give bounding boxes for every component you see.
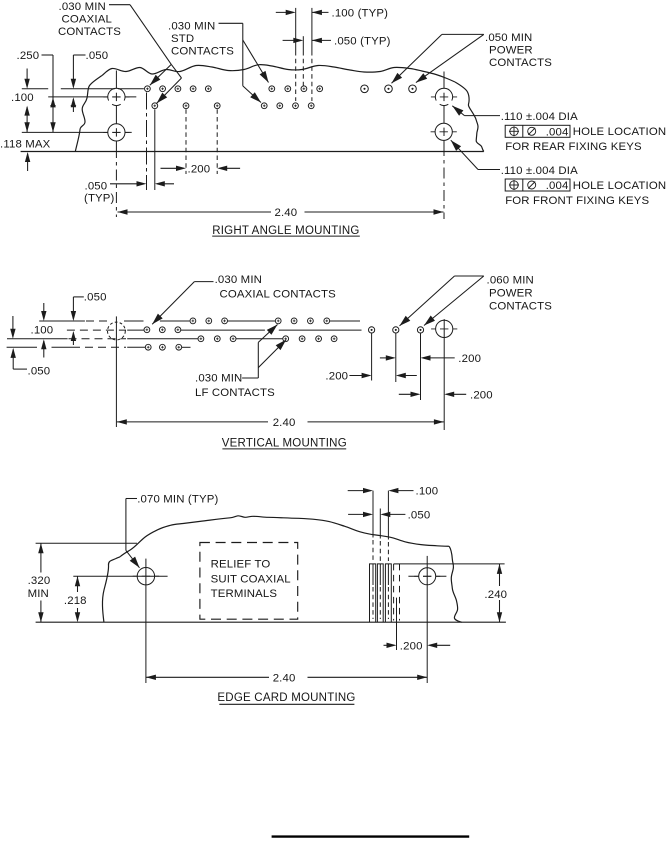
dimension 2.40 (vertical view) [117,419,127,424]
svg-text:RELIEF TO: RELIEF TO [211,559,271,571]
svg-text:.004: .004 [546,127,569,139]
leader arrow to power contact 2 (vertical view) [400,276,455,326]
dim extension line x=303.3 [302,36,304,51]
svg-text:.030 MIN: .030 MIN [168,21,215,33]
leader lines power contacts (vertical view) [455,275,484,277]
svg-text:CONTACTS: CONTACTS [171,46,234,58]
svg-text:.070 MIN (TYP): .070 MIN (TYP) [137,493,218,505]
dim extension line x=295.7 [295,8,297,51]
leader arrow to power contact 3 (vertical view) [424,276,484,326]
power contact extension line 3 [420,333,422,400]
left front fixing key hole [103,131,129,133]
leader line .070 MIN [126,498,137,500]
svg-text:.050 (TYP): .050 (TYP) [334,36,391,48]
svg-text:CONTACTS: CONTACTS [489,57,552,69]
power contact extension line 1 [371,333,373,380]
svg-text:.050: .050 [28,366,51,378]
svg-text:.100: .100 [11,92,34,104]
svg-text:RIGHT ANGLE MOUNTING: RIGHT ANGLE MOUNTING [212,225,359,237]
extension line from row1 first contact (dash-dot) [146,93,148,191]
left fixing hole (vertical view) [108,322,126,340]
contact row 3 (vertical view) [198,336,337,342]
svg-text:HOLE LOCATION: HOLE LOCATION [573,180,667,192]
dimension .050 (edge card) [348,513,371,515]
board outline (right angle view) torn right edge [455,82,484,152]
left hole horizontal centerline [73,575,167,577]
fixing hole centerline C (bottom holes) [22,131,132,133]
board bottom edge (edge card) [36,621,462,623]
contact row 4 (vertical view) [145,344,181,350]
svg-text:2.40: 2.40 [273,417,296,429]
power contacts (right angle view) [361,85,417,93]
svg-text:2.40: 2.40 [273,672,296,684]
contact row 1 reference line A [22,88,48,90]
dimension .240 [497,564,502,574]
svg-text:.050 MIN: .050 MIN [485,32,532,44]
svg-text:.050: .050 [85,181,108,193]
dimension .200 (edge card) [384,644,395,646]
leader arrow to row1 coaxial contact [150,64,172,85]
leader arrow to power contact 3 [416,34,484,82]
svg-text:HOLE LOCATION: HOLE LOCATION [573,126,667,138]
svg-text:.060 MIN: .060 MIN [487,275,534,287]
power contact extension line 2 [395,333,397,382]
power contacts (vertical view) [369,327,424,333]
rear fixing keys note leader [465,115,501,117]
right mounting hole (edge card) [408,575,446,577]
svg-text:CONTACTS: CONTACTS [489,301,552,313]
dimension .200 between power contacts 2-3 [380,357,394,359]
leader line coaxial contacts (vertical view) [194,281,213,283]
svg-text:.030 MIN: .030 MIN [195,373,242,385]
vertical centerline right hole (edge card) [426,556,428,683]
dim extension line x=311.9 [311,8,313,51]
svg-text:VERTICAL MOUNTING: VERTICAL MOUNTING [222,437,347,449]
vertical centerline right hole (vertical view) [443,319,445,430]
finger 4 centerline extension [396,598,398,650]
svg-text:.100: .100 [416,486,439,498]
right front fixing key hole [431,131,457,133]
card edge contact fingers (solid) [370,564,376,622]
svg-text:.200: .200 [470,389,493,401]
svg-text:SUIT COAXIAL: SUIT COAXIAL [211,573,291,585]
row line 4 (vertical view) [7,346,37,348]
dimension .100 (TYP) top [276,11,293,13]
board outline (right angle view) torn left edge [75,76,102,152]
leader line coaxial contacts [109,4,130,6]
footer rule line [272,835,470,837]
svg-text:FOR REAR FIXING KEYS: FOR REAR FIXING KEYS [505,141,642,153]
relief floor line right of fingers [400,563,505,565]
svg-text:EDGE CARD MOUNTING: EDGE CARD MOUNTING [217,692,355,704]
relief pocket dashed outline [200,543,298,620]
dimension .050 bottom (vertical view) [12,316,14,336]
svg-text:LF CONTACTS: LF CONTACTS [195,387,275,399]
svg-text:MIN: MIN [28,588,49,600]
svg-text:.200: .200 [458,353,481,365]
extension line from row2 third contact (dashed) [216,109,218,174]
finger centerline 1 [372,491,374,538]
svg-text:COAXIAL: COAXIAL [62,14,112,26]
svg-text:.050: .050 [408,510,431,522]
row 2 level tick on .050 extension [71,105,76,107]
coaxial/std contact row 1 (right angle view) [145,86,323,92]
left mounting hole (edge card) [133,575,159,577]
leader arrow to power contact 2 [392,34,442,83]
finger centerline 2 [379,509,381,539]
row line 1 (vertical view) [39,320,85,322]
svg-text:.004: .004 [546,180,569,192]
svg-text:CONTACTS: CONTACTS [58,26,121,38]
dimension .200 (right angle view) [161,167,184,169]
extension line from row2 second contact (dashed) [185,109,187,174]
front fixing keys note leader [478,169,500,171]
svg-text:STD: STD [171,33,194,45]
row 2 level tick on .250 extension [50,105,55,107]
leader line LF contacts [242,377,258,379]
leader arrow to row1 std contact [243,40,269,83]
row line 3 (vertical view) [7,338,68,340]
svg-text:.110 ±.004 DIA: .110 ±.004 DIA [501,165,578,177]
contact row 2 (vertical view) [144,327,181,333]
svg-text:2.40: 2.40 [275,207,298,219]
vertical centerline through left fixing keys [115,71,117,148]
svg-text:.240: .240 [484,589,507,601]
.240 bottom reference extension [462,621,506,623]
vertical centerline left hole (vertical view) [115,316,117,427]
leader line std contacts [219,22,243,24]
svg-text:.320: .320 [28,575,51,587]
leader arrow to row2 std contact [243,86,261,103]
dimension 2.40 (edge card) [146,675,156,680]
svg-text:.200: .200 [188,163,211,175]
finger centerline 3 [387,491,389,540]
svg-text:(TYP): (TYP) [84,193,115,205]
svg-text:.200: .200 [325,371,348,383]
vertical centerline through right fixing keys [443,72,445,146]
board outline (edge card) top edge [120,516,449,557]
right rear fixing key hole [431,96,457,98]
right fixing hole (vertical view) [431,328,457,330]
svg-text:.030 MIN: .030 MIN [59,1,106,13]
svg-text:.050: .050 [86,50,109,62]
dimension .050 (TYP) top [283,39,301,41]
svg-text:.200: .200 [400,640,423,652]
extension line from row2 first contact [154,109,156,190]
contact row 1 (vertical view) [190,318,330,324]
svg-text:.218: .218 [64,595,87,607]
svg-text:.030 MIN: .030 MIN [215,274,262,286]
leader arrow to row3 LF contact [258,340,286,368]
svg-text:POWER: POWER [489,45,533,57]
card edge finger 4 (dashed sides) [394,563,400,565]
svg-text:.118 MAX: .118 MAX [0,139,51,151]
svg-text:.110 ±.004 DIA: .110 ±.004 DIA [501,111,578,123]
left rear fixing key hole [103,96,129,98]
svg-text:TERMINALS: TERMINALS [211,588,278,600]
row line 2 (vertical view) [67,329,126,331]
std contact row 2 (right angle view) [152,103,314,109]
svg-text:COAXIAL CONTACTS: COAXIAL CONTACTS [220,288,337,300]
svg-text:.050: .050 [84,292,107,304]
dimension .100 (edge card) [348,490,371,492]
svg-text:.100 (TYP): .100 (TYP) [332,8,389,20]
board outline (right angle view) wavy top edge [102,65,455,82]
board outline (edge card) torn left edge [102,557,120,622]
fixing hole centerline B (top holes) [48,96,136,98]
svg-text:.100: .100 [31,325,54,337]
leader arrow to row2 coaxial contact [171,64,181,78]
leader lines power contacts (right angle view) [442,33,484,35]
vertical centerline left hole (edge card) [145,559,147,683]
board bottom edge / .118 MAX reference line [21,151,484,153]
.320 top reference line [36,542,137,544]
svg-text:POWER: POWER [489,288,533,300]
dimension .200 power contact 3 to hole [399,393,418,395]
svg-text:.250: .250 [17,50,40,62]
svg-text:FOR FRONT FIXING KEYS: FOR FRONT FIXING KEYS [505,195,649,207]
dimension 2.40 (right angle view) [118,209,128,214]
board outline (edge card) torn right edge [449,546,462,622]
leader arrow to row1 LF contact [258,325,277,343]
